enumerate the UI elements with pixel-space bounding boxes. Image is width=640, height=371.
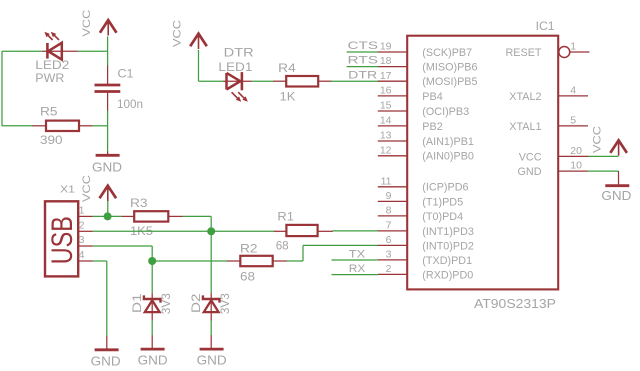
svg-text:XTAL2: XTAL2 — [509, 91, 541, 103]
svg-text:RTS: RTS — [348, 55, 379, 67]
svg-text:R1: R1 — [277, 210, 294, 224]
svg-text:GND: GND — [92, 159, 122, 174]
svg-text:DTR: DTR — [348, 69, 377, 81]
svg-text:13: 13 — [380, 130, 392, 142]
svg-text:100n: 100n — [117, 97, 143, 111]
svg-text:VCC: VCC — [592, 126, 604, 153]
svg-text:XTAL1: XTAL1 — [509, 121, 541, 133]
svg-text:8: 8 — [386, 205, 392, 217]
svg-text:(RXD)PD0: (RXD)PD0 — [422, 269, 473, 281]
svg-text:R4: R4 — [278, 61, 296, 75]
svg-text:RX: RX — [349, 263, 366, 275]
svg-text:R5: R5 — [40, 105, 58, 119]
svg-text:3: 3 — [386, 249, 392, 261]
svg-text:X1: X1 — [60, 184, 75, 196]
svg-text:(SCK)PB7: (SCK)PB7 — [422, 47, 472, 59]
svg-text:(OCI)PB3: (OCI)PB3 — [422, 106, 469, 118]
svg-text:(T1)PD5: (T1)PD5 — [422, 196, 463, 208]
svg-text:1K: 1K — [280, 89, 296, 103]
svg-text:68: 68 — [276, 239, 289, 253]
svg-text:1: 1 — [79, 204, 85, 216]
svg-text:5: 5 — [570, 115, 576, 127]
svg-text:VCC: VCC — [81, 10, 93, 37]
svg-text:6: 6 — [386, 234, 392, 246]
svg-text:DTR: DTR — [224, 45, 254, 59]
svg-text:(MISO)PB6: (MISO)PB6 — [422, 62, 477, 74]
svg-text:LED1: LED1 — [218, 60, 252, 74]
svg-text:VCC: VCC — [81, 175, 93, 202]
svg-text:PB2: PB2 — [422, 121, 442, 133]
svg-text:PWR: PWR — [35, 71, 64, 85]
svg-text:16: 16 — [380, 85, 392, 97]
svg-text:(INT1)PD3: (INT1)PD3 — [422, 226, 474, 238]
svg-text:12: 12 — [380, 144, 392, 156]
svg-text:2: 2 — [386, 263, 392, 275]
svg-text:VCC: VCC — [172, 20, 184, 47]
svg-text:14: 14 — [380, 115, 392, 127]
svg-text:AT90S2313P: AT90S2313P — [474, 297, 556, 311]
svg-text:(INT0)PD2: (INT0)PD2 — [422, 240, 474, 252]
svg-text:GND: GND — [518, 166, 542, 178]
svg-text:RESET: RESET — [506, 47, 542, 59]
svg-text:4: 4 — [79, 249, 85, 261]
svg-text:LED2: LED2 — [35, 58, 69, 72]
svg-text:TX: TX — [349, 249, 366, 261]
svg-text:(MOSI)PB5: (MOSI)PB5 — [422, 76, 477, 88]
svg-text:GND: GND — [91, 354, 121, 369]
svg-text:PB4: PB4 — [422, 91, 442, 103]
svg-text:19: 19 — [380, 41, 392, 53]
svg-text:9: 9 — [386, 190, 392, 202]
svg-text:GND: GND — [138, 353, 168, 368]
svg-text:20: 20 — [570, 145, 582, 157]
svg-text:C1: C1 — [118, 67, 134, 81]
svg-text:VCC: VCC — [519, 151, 542, 163]
svg-text:18: 18 — [380, 55, 392, 67]
svg-text:(TXD)PD1: (TXD)PD1 — [422, 255, 472, 267]
svg-text:IC1: IC1 — [536, 19, 555, 33]
svg-text:D1: D1 — [130, 293, 144, 313]
svg-text:(T0)PD4: (T0)PD4 — [422, 211, 463, 223]
svg-text:2: 2 — [79, 219, 85, 231]
svg-text:3: 3 — [79, 234, 85, 246]
svg-text:15: 15 — [380, 100, 392, 112]
svg-text:(ICP)PD6: (ICP)PD6 — [422, 182, 468, 194]
svg-text:USB: USB — [46, 216, 79, 264]
svg-text:3V3: 3V3 — [159, 293, 173, 314]
svg-text:GND: GND — [601, 188, 631, 203]
svg-text:7: 7 — [386, 220, 392, 232]
svg-text:4: 4 — [570, 85, 576, 97]
svg-text:CTS: CTS — [348, 40, 379, 52]
svg-text:GND: GND — [197, 353, 227, 368]
svg-text:D2: D2 — [189, 293, 203, 313]
svg-text:11: 11 — [381, 175, 392, 187]
svg-text:(AIN1)PB1: (AIN1)PB1 — [422, 136, 474, 148]
svg-text:17: 17 — [380, 70, 392, 82]
svg-text:68: 68 — [240, 269, 255, 283]
svg-text:1: 1 — [570, 41, 576, 53]
svg-text:R3: R3 — [130, 196, 148, 210]
svg-text:390: 390 — [40, 133, 63, 147]
svg-text:3V3: 3V3 — [218, 293, 232, 314]
svg-text:(AIN0)PB0: (AIN0)PB0 — [422, 151, 474, 163]
svg-text:10: 10 — [570, 160, 582, 172]
svg-text:R2: R2 — [240, 242, 258, 256]
